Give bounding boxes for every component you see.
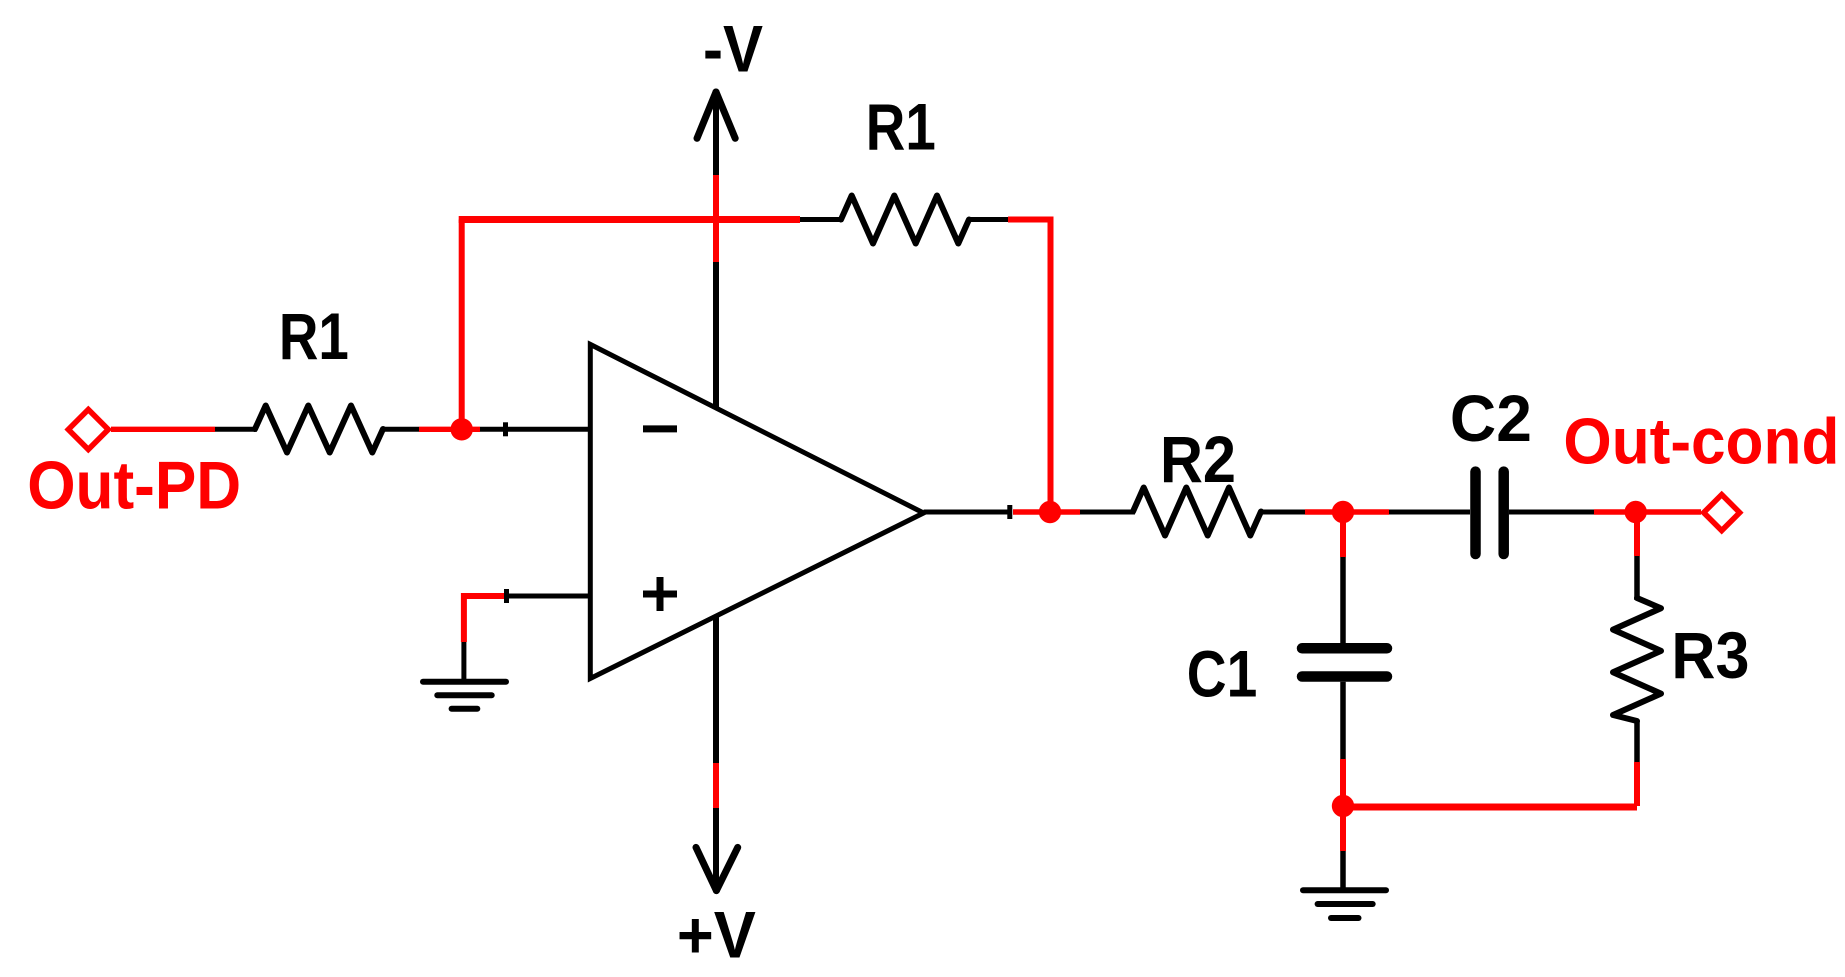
wire red from Out-PD to R1 (111, 427, 215, 432)
power +V arrow head (696, 847, 716, 890)
wire red Out-cond down to R3 (1634, 512, 1640, 556)
power -V black to op-amp (713, 262, 719, 408)
wire red below junction (1340, 806, 1346, 851)
wire red to bottom junction (1340, 759, 1346, 806)
capacitor C1 (1302, 643, 1387, 654)
node bottom junction dot (1332, 795, 1354, 817)
power -V red segment (713, 175, 719, 262)
wire red non-inverting input (464, 596, 509, 642)
wire black R1 left lead (215, 427, 257, 432)
wire black to ground (non-inverting) (461, 642, 466, 679)
wire black node to C2 (1389, 510, 1470, 515)
wire black R3 top lead (1634, 556, 1640, 600)
power +V black from op-amp down (713, 616, 719, 763)
svg-text:R3: R3 (1671, 618, 1749, 692)
wire black down to C1 (1340, 557, 1346, 644)
wire red feedback top rail (459, 216, 800, 223)
wire black R2 left lead (1080, 510, 1135, 515)
power +V black lower (713, 808, 719, 887)
wire black R3 bottom lead (1634, 721, 1640, 762)
resistor R1 (feedback) (841, 196, 969, 244)
wire black feedback R1 right lead (969, 217, 1008, 222)
ground (op-amp non-inverting input) (423, 679, 506, 685)
svg-text:C2: C2 (1450, 381, 1532, 455)
svg-text:-V: -V (703, 12, 763, 86)
wire red junction up to feedback rail (459, 220, 465, 430)
pin tick inverting input (503, 422, 508, 436)
node junction at inverting input (451, 418, 473, 440)
capacitor C2 (1470, 472, 1481, 554)
wire red Out-cond dot to diamond (1636, 509, 1701, 514)
wire black op-amp output (924, 510, 1010, 515)
svg-text:R2: R2 (1160, 422, 1236, 496)
resistor R2 (1133, 488, 1261, 536)
svg-text:C1: C1 (1187, 637, 1258, 711)
wire black C2 to Out-cond (1509, 510, 1594, 515)
wire red node down (1340, 512, 1346, 557)
wire black R1 right lead (383, 427, 419, 432)
ground (bottom right) (1303, 887, 1386, 893)
wire black to ground (C1) (1340, 851, 1346, 888)
pin tick non-inverting input (504, 589, 509, 603)
resistor R1 (input) (255, 406, 383, 453)
wire red to Out-cond dot (1594, 509, 1637, 514)
wire black feedback R1 left lead (800, 217, 843, 222)
wire red feedback right corner (1008, 220, 1051, 513)
wire red R1 to junction (419, 427, 480, 432)
svg-text:R1: R1 (866, 90, 936, 164)
svg-text:+V: +V (677, 897, 756, 971)
node Out-cond dot (1625, 501, 1647, 523)
node output dot (1039, 501, 1061, 523)
power -V arrow head (697, 92, 716, 138)
wire red bottom rail (1343, 804, 1637, 811)
op-amp plus sign (643, 591, 677, 598)
wire black R2 right lead (1261, 510, 1305, 515)
wire red R3 bottom to rail (1634, 762, 1640, 806)
op-amp U1 triangle (590, 344, 923, 678)
resistor R3 (1613, 598, 1661, 721)
svg-text:Out-PD: Out-PD (27, 448, 241, 524)
wire black below C1 (1340, 682, 1346, 759)
wire black junction to op-amp inverting input (480, 427, 590, 432)
wire black non-inverting input to op-amp (509, 594, 590, 599)
connector Out-cond (diamond) (1704, 495, 1740, 531)
node dot R2/C1/C2 (1332, 501, 1354, 523)
op-amp minus sign (643, 425, 677, 432)
power -V vertical line upper black (713, 92, 719, 175)
pin tick output (1007, 505, 1012, 519)
svg-text:Out-cond: Out-cond (1563, 404, 1839, 477)
svg-text:R1: R1 (279, 299, 349, 373)
connector Out-PD (diamond) (68, 410, 108, 450)
wire red R2 to node (1305, 509, 1389, 514)
power +V red segment (713, 763, 719, 808)
wire red output to dot (1013, 509, 1080, 514)
